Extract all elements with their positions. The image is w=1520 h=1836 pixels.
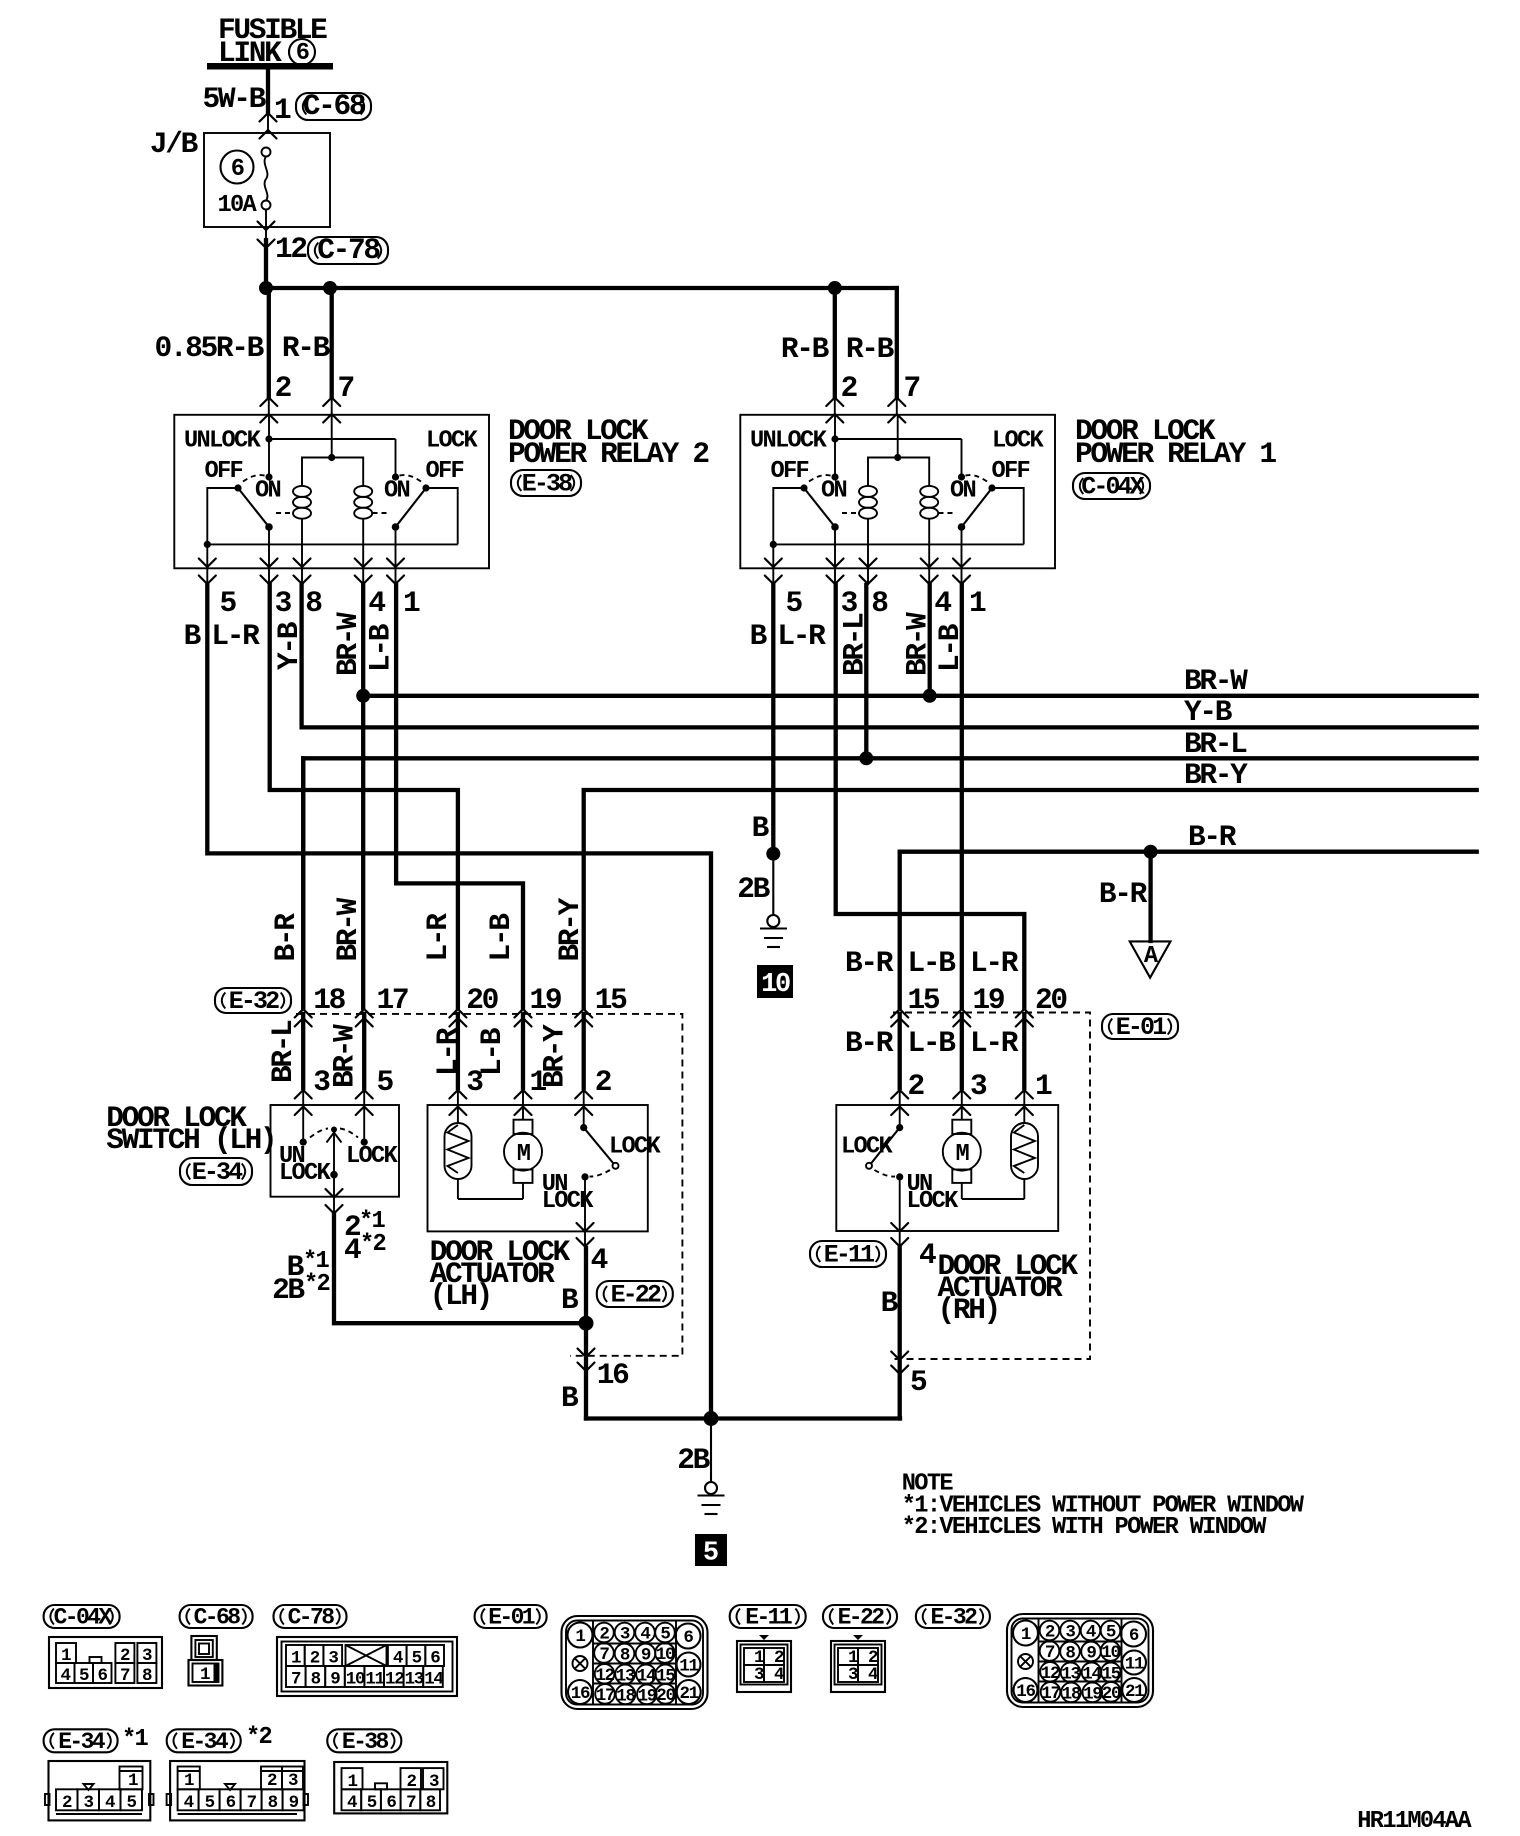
svg-text:19: 19 [530,983,561,1017]
E-32 to actuator wire BR-Y [582,1014,586,1088]
svg-text:4: 4 [934,586,951,620]
actuator LH box [428,1105,648,1231]
svg-text:E-32: E-32 [930,1605,977,1631]
actuator LH exit chevrons pin 4 [577,1223,594,1232]
svg-text:7: 7 [120,1666,130,1686]
svg-text:BR-Y: BR-Y [1184,758,1248,792]
svg-text:E-22: E-22 [838,1605,885,1631]
svg-text:3: 3 [275,586,292,620]
connector tag E-11 [730,1605,806,1631]
wire relay2 pin8 to Y-B bus [302,585,1477,727]
switch LH tag E-34 [180,1158,252,1187]
svg-text:BR-W: BR-W [1184,664,1248,698]
svg-text:11: 11 [365,1670,384,1690]
main bus wire [266,286,897,290]
svg-text:L-B: L-B [908,946,957,980]
svg-text:LOCK: LOCK [279,1160,332,1187]
svg-text:B: B [752,811,770,845]
actuator RH title [938,1249,1079,1327]
svg-text:E-22: E-22 [611,1281,661,1310]
svg-text:6: 6 [296,40,309,67]
svg-text:(LH): (LH) [430,1279,491,1313]
svg-text:7: 7 [406,1793,416,1813]
junction relay2 pin4 / BR-W bus [356,689,370,703]
E-32 tag [215,987,291,1016]
svg-text:B: B [881,1286,899,1320]
svg-text:5: 5 [786,586,803,620]
wire bus to relay2 pin2 [267,288,271,415]
svg-text:Y-B: Y-B [1184,695,1233,729]
svg-text:LOCK: LOCK [346,1143,399,1170]
svg-text:BR-W: BR-W [331,612,365,676]
switch LH exit chevrons [326,1189,343,1198]
svg-text:13: 13 [405,1670,424,1690]
svg-text:E-11: E-11 [824,1241,874,1270]
relay: DOOR LOCK POWER RELAY 1 [740,415,1055,585]
actuator RH entry chevrons [891,1090,908,1099]
junction node at x=330 [323,281,337,295]
BR-L bus [303,758,1477,1008]
svg-text:4: 4 [184,1793,194,1813]
svg-text:B: B [561,1283,579,1317]
junction node at x=266 [259,281,273,295]
E-01 pin5 exit chevrons [891,1352,908,1361]
connector body E-34 *1 [45,1761,154,1820]
svg-text:1: 1 [184,1771,194,1791]
svg-text:E-34: E-34 [181,1729,229,1755]
actuator LH resistor [445,1105,472,1199]
relay1 connector tag C-04X [1073,473,1150,502]
svg-text:4: 4 [368,586,385,620]
wire relay1 pin1 L-B route to E-01 [960,585,964,1008]
junction relay1 pin4 / BR-W bus [923,689,937,703]
box entry chevrons [295,1090,312,1099]
svg-text:L-R: L-R [421,913,455,962]
E-32 chevrons [295,1009,312,1018]
connector tag E-38 [327,1729,401,1755]
wire relay1 pin5 B to ground 10 [771,585,775,854]
junction relay1 pin8 / BR-L bus [859,751,873,765]
svg-text:6: 6 [98,1666,108,1686]
svg-text:B: B [750,619,768,653]
connector body C-68 [189,1636,223,1686]
svg-text:C-04X: C-04X [54,1605,113,1631]
svg-text:E-01: E-01 [1116,1013,1166,1042]
svg-text:14: 14 [424,1670,443,1690]
svg-text:LOCK: LOCK [609,1134,662,1161]
svg-text:BR-Y: BR-Y [553,897,587,961]
junction ground bus [704,1411,719,1426]
svg-text:7: 7 [291,1670,301,1690]
connector body E-32 (21 pin) [1007,1614,1153,1707]
connector tag E-01 [475,1605,547,1631]
svg-text:2: 2 [908,1069,924,1103]
svg-text:3: 3 [970,1069,987,1103]
ground symbol 10 [760,915,787,947]
BR-Y bus [584,790,1477,1008]
svg-text:B-R: B-R [845,946,894,980]
svg-text:7: 7 [247,1793,257,1813]
svg-text:E-38: E-38 [522,470,572,499]
connector tag E-34 *1 [44,1726,149,1755]
actuator RH box [836,1105,1058,1231]
connector body E-22 [831,1635,885,1692]
actuator RH resistor [1011,1105,1038,1199]
svg-text:1: 1 [1035,1069,1052,1103]
E-01 pin numbers 15 19 20 [908,983,1067,1017]
E-01 wire labels above [845,946,1019,980]
svg-text:8: 8 [311,1670,321,1690]
actuator RH ground wire [898,1248,902,1419]
svg-text:L-R: L-R [211,619,260,653]
wire relay2 pin3 L-R route to E-32 [270,585,458,1008]
fuse 6 circle [221,151,254,184]
switch LH title [106,1101,275,1157]
chevrons relay1 pins 2,7 [826,398,843,407]
svg-text:C-68: C-68 [194,1605,241,1631]
svg-text:20: 20 [1035,983,1066,1017]
junction node at x=835 [828,281,842,295]
wire relay1 pin4 to BR-W bus [928,585,932,696]
connector body E-34 *2 [167,1761,308,1820]
wire B-R to ground A [1148,852,1152,941]
svg-text:2B: 2B [272,1273,305,1307]
svg-text:L-R: L-R [777,619,826,653]
connector tag C-04X [44,1605,120,1631]
actuator LH ground wire [584,1248,588,1419]
wire bus to relay2 pin7 [330,288,334,415]
svg-text:5: 5 [703,1539,719,1569]
connector body E-38 [334,1762,447,1813]
switch LH pin labels 2*1 4*2 [344,1208,386,1267]
fuse symbol 10A [217,148,270,228]
svg-text:3: 3 [466,1065,483,1099]
wire relay1 pin8 to BR-L bus [864,585,868,758]
svg-text:*1: *1 [122,1726,149,1753]
E-11 tag [810,1241,886,1270]
svg-text:5: 5 [220,586,237,620]
switch LH internals [279,1105,399,1197]
svg-text:12: 12 [385,1670,404,1690]
svg-text:C-04X: C-04X [1081,473,1144,502]
svg-text:E-38: E-38 [342,1729,389,1755]
wire bus to relay1 pin7 [895,288,899,415]
svg-text:10: 10 [761,970,790,1000]
switch LH common wire to junction [334,1215,586,1323]
svg-text:3: 3 [313,1065,330,1099]
svg-text:8: 8 [426,1793,436,1813]
connector chevrons out of J/B [258,222,275,231]
svg-text:2: 2 [841,371,857,405]
E-32 to switch wire BR-L [301,1014,305,1088]
svg-text:2: 2 [275,371,291,405]
svg-text:6: 6 [226,1793,236,1813]
svg-text:3: 3 [288,1771,298,1791]
svg-text:6: 6 [386,1793,396,1813]
svg-text:20: 20 [466,983,497,1017]
BR-W bus [363,694,1477,698]
E-32 dashed boundary [296,1014,682,1356]
ground ref box 5 [695,1534,727,1569]
svg-text:R-B: R-B [282,331,331,365]
svg-text:R-B: R-B [846,332,895,366]
svg-text:4: 4 [61,1666,71,1686]
connector tag C-78 [274,1605,347,1631]
svg-text:0.85R-B: 0.85R-B [154,331,264,365]
fusible link label [218,13,327,70]
svg-text:HR11M04AA: HR11M04AA [1357,1808,1472,1835]
ground symbol 5 [698,1482,725,1514]
svg-text:15: 15 [908,983,940,1017]
box entry pin numbers 3 5 3 1 2 [313,1065,611,1099]
svg-text:1: 1 [969,586,986,620]
svg-text:E-34: E-34 [58,1729,106,1755]
connector C-78 tag [308,233,388,267]
svg-text:4: 4 [347,1793,357,1813]
svg-text:2B: 2B [677,1443,710,1477]
svg-text:B: B [561,1381,579,1415]
E-01 tag [1102,1013,1178,1042]
svg-text:*2: *2 [304,1271,330,1298]
connector chevrons into J/B [260,113,277,122]
B-R bus [900,852,1477,1008]
actuator LH title [430,1235,571,1313]
wire 2B to ground 5 [710,1419,712,1483]
relay2 pin numbers 5 3 8 4 1 [220,586,421,620]
ground A triangle [1130,941,1171,977]
svg-text:1: 1 [530,1065,547,1099]
svg-text:16: 16 [597,1358,629,1392]
wire 2B to ground 10 [772,854,774,915]
svg-text:4: 4 [344,1233,361,1267]
svg-text:8: 8 [268,1793,278,1813]
relay2 title [508,414,708,471]
connector body E-11 [737,1635,791,1692]
svg-text:L-R: L-R [431,1027,465,1076]
svg-text:8: 8 [871,586,888,620]
relay1 pin numbers 5 3 8 4 1 [786,586,987,620]
E-32 to actuator wire L-R [456,1014,460,1088]
svg-text:C-78: C-78 [317,233,380,267]
wire relay2 pin1 L-B route to E-32 [396,585,523,1008]
svg-text:BR-L: BR-L [1184,727,1247,761]
svg-text:2: 2 [62,1793,72,1813]
svg-text:*2:VEHICLES WITH POWER WINDOW: *2:VEHICLES WITH POWER WINDOW [902,1514,1267,1541]
svg-text:15: 15 [595,983,627,1017]
wire relay1 pin3 L-R route to E-01 [836,585,1025,1008]
junction block J/B box [204,133,330,227]
svg-text:5: 5 [377,1065,394,1099]
wire down to main bus [264,240,268,288]
connector tag C-68 [180,1605,253,1631]
svg-text:C-78: C-78 [288,1605,335,1631]
E-32 pin numbers [313,983,627,1017]
svg-text:BR-L: BR-L [266,1020,300,1083]
svg-text:B-R: B-R [269,913,303,962]
actuator LH position switch [542,1105,662,1231]
svg-text:BR-W: BR-W [327,1024,361,1088]
svg-text:18: 18 [313,983,345,1017]
svg-text:L-B: L-B [908,1026,957,1060]
wire relay2 pin4 down to BR-W bus and E-32 [361,585,365,1008]
svg-text:*2: *2 [246,1724,272,1751]
svg-text:POWER RELAY 2: POWER RELAY 2 [508,437,708,471]
actuator RH exit chevrons pin 4 [891,1223,908,1232]
svg-text:L-R: L-R [970,1026,1019,1060]
svg-text:LOCK: LOCK [542,1188,595,1215]
wire relay2 pin5 B route to ground bus [207,585,711,1419]
svg-text:8: 8 [305,586,322,620]
svg-text:5: 5 [367,1793,377,1813]
svg-text:7: 7 [338,371,354,405]
junction B-R bus / ground A drop [1144,845,1158,859]
E-32 to switch wire BR-W [362,1014,366,1088]
actuator LH motor-resistor link [458,1198,523,1200]
svg-text:2: 2 [595,1065,611,1099]
wire bus to relay1 pin2 [833,288,837,415]
relay: DOOR LOCK POWER RELAY 2 [174,415,489,585]
connector body E-01 (21 pin) [562,1616,708,1709]
svg-text:4: 4 [105,1793,115,1813]
ground ref box 10 [757,965,793,1000]
svg-text:4: 4 [919,1238,936,1272]
E-01 chevrons [891,1009,908,1018]
wire BR-L drop to E-32 (lower part) [301,758,305,1008]
connector tag E-22 [823,1605,897,1631]
svg-text:1: 1 [128,1771,138,1791]
E-32 pin16 exit chevrons [578,1349,595,1358]
svg-text:1: 1 [403,586,420,620]
svg-text:B-R: B-R [1188,820,1237,854]
svg-text:SWITCH (LH): SWITCH (LH) [106,1123,275,1157]
svg-text:E-11: E-11 [745,1605,792,1631]
actuator RH position switch [841,1105,959,1231]
svg-text:J/B: J/B [150,127,199,161]
actuator LH motor [504,1105,542,1199]
svg-text:19: 19 [973,983,1004,1017]
svg-text:BR-W: BR-W [331,897,365,961]
connector body C-78 [277,1637,457,1696]
svg-text:17: 17 [377,983,408,1017]
svg-text:5: 5 [205,1793,215,1813]
svg-text:12: 12 [275,232,306,266]
svg-text:LOCK: LOCK [907,1188,960,1215]
E-01 wire labels below [845,1026,1019,1060]
svg-text:M: M [517,1141,531,1168]
splice node B/2B [766,847,780,861]
svg-text:2B: 2B [737,872,770,906]
actuator RH motor-resistor link [962,1198,1025,1200]
svg-text:LOCK: LOCK [841,1134,894,1161]
switch LH box [271,1105,400,1197]
actuator RH motor [943,1105,981,1199]
svg-text:*2: *2 [360,1231,386,1258]
switch LH wire labels B*1 2B*2 [272,1248,329,1307]
svg-text:(RH): (RH) [938,1293,999,1327]
E-01 dashed boundary [893,1013,1090,1360]
svg-text:B-R: B-R [1099,877,1148,911]
svg-text:POWER RELAY 1: POWER RELAY 1 [1075,437,1276,471]
svg-text:7: 7 [904,371,920,405]
svg-text:5: 5 [127,1793,137,1813]
fusible link bar [207,63,333,70]
svg-text:M: M [956,1141,970,1168]
wire 5W-B from fusible link [203,69,268,133]
svg-text:8: 8 [142,1666,152,1686]
svg-text:B-R: B-R [845,1026,894,1060]
svg-text:5: 5 [910,1365,927,1399]
svg-text:L-B: L-B [484,913,518,962]
relay1 title [1075,414,1276,471]
svg-text:3: 3 [84,1793,94,1813]
svg-text:E-34: E-34 [192,1158,243,1187]
moving arm with arrowhead [331,1127,337,1133]
svg-text:9: 9 [289,1793,299,1813]
svg-text:L-R: L-R [970,946,1019,980]
svg-text:6: 6 [231,156,244,183]
E-32 to actuator wire L-B [521,1014,525,1088]
chevrons relay2 pins 2,7 [260,398,277,407]
svg-text:B: B [184,619,202,653]
svg-text:10A: 10A [217,192,257,219]
svg-text:5W-B: 5W-B [203,82,267,116]
svg-text:C-68: C-68 [303,89,366,123]
svg-text:R-B: R-B [781,332,830,366]
actuator RH entry pin numbers 2 3 1 [908,1069,1053,1103]
svg-text:10: 10 [346,1670,365,1690]
E-01 to actuator RH wires [898,1014,902,1088]
svg-text:2: 2 [267,1771,277,1791]
connector C-68 tag [296,89,371,123]
svg-text:L-B: L-B [364,623,398,672]
ground bus wire [586,1416,900,1420]
connector body C-04X [49,1637,162,1688]
svg-text:9: 9 [330,1670,340,1690]
connector tag E-32 [916,1605,990,1631]
svg-text:5: 5 [79,1666,89,1686]
connector tag E-34 *2 [167,1724,272,1755]
junction switch/actuator ground [579,1316,594,1331]
svg-text:E-32: E-32 [229,987,279,1016]
relay2 connector tag E-38 [511,470,581,499]
E-22 tag [597,1281,673,1310]
svg-text:E-01: E-01 [488,1605,535,1631]
svg-text:1: 1 [200,1665,210,1685]
svg-text:4: 4 [591,1243,608,1277]
